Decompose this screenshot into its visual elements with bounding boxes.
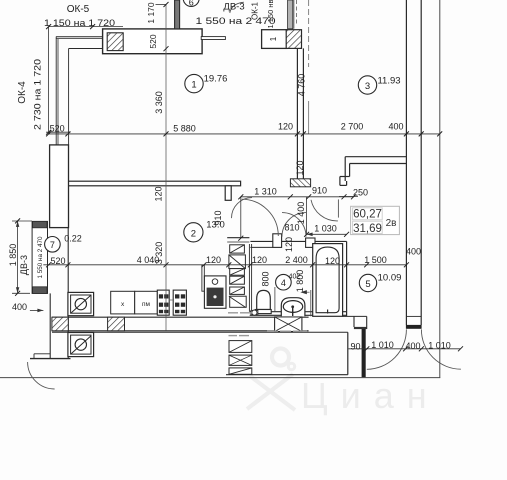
svg-text:3 320: 3 320 (154, 242, 164, 265)
svg-text:ДВ-3: ДВ-3 (223, 2, 244, 13)
toilet (257, 290, 271, 309)
wall: top exterior left segment (56, 37, 103, 145)
svg-text:5: 5 (365, 279, 370, 290)
svg-text:2 400: 2 400 (285, 255, 308, 265)
door arc room2 (242, 199, 279, 236)
wall stub above pier (288, 0, 293, 29)
stamp box (351, 206, 400, 234)
dim 400 left (30, 309, 44, 311)
svg-text:1 550 на 2 470: 1 550 на 2 470 (37, 236, 44, 278)
svg-text:250: 250 (353, 188, 368, 198)
wall: bath/room5 divider (346, 241, 348, 316)
washbasin (281, 298, 305, 317)
entry hall outline (52, 331, 348, 333)
svg-text:120: 120 (295, 160, 305, 175)
svg-text:400: 400 (12, 302, 27, 312)
svg-text:Циан: Циан (301, 375, 440, 416)
door DV-3 left balcony (32, 221, 47, 293)
svg-text:1: 1 (191, 80, 196, 91)
door arc corridor-left cross (232, 198, 253, 219)
wall: kitchen bottom band (52, 316, 309, 318)
hatched pier kitchen-mid (108, 317, 125, 331)
door arc entry left (367, 329, 407, 369)
svg-text:120: 120 (284, 237, 294, 252)
svg-text:2в: 2в (386, 218, 397, 229)
svg-text:1 150 нв: 1 150 нв (266, 0, 275, 28)
partition above top wall (175, 0, 180, 29)
vent shaft squares (229, 245, 246, 308)
svg-text:ОК-5: ОК-5 (67, 4, 90, 15)
svg-text:400: 400 (388, 122, 403, 132)
door arc bathroom (282, 213, 306, 237)
svg-text:3: 3 (365, 81, 370, 92)
svg-text:2: 2 (191, 228, 196, 239)
wall: bathroom bottom (250, 311, 347, 313)
room circle 4 (276, 274, 292, 290)
wire: section line bottom (0, 377, 440, 379)
svg-text:2 700: 2 700 (341, 122, 364, 132)
svg-text:120: 120 (278, 122, 293, 132)
svg-text:1 150 на 1 720: 1 150 на 1 720 (44, 18, 115, 29)
stove unit 2 (173, 290, 186, 315)
svg-text:800: 800 (261, 271, 271, 286)
room circle 7 (45, 237, 61, 253)
wall footing bottom left (34, 353, 50, 355)
svg-text:7: 7 (50, 240, 55, 250)
window OK-5 (103, 29, 203, 54)
door arc room5 (311, 200, 338, 221)
wall: left exterior column (67, 186, 69, 359)
svg-text:4: 4 (281, 278, 286, 288)
kitchen partition (202, 265, 204, 291)
dim vertical 910 corridor (240, 197, 242, 238)
svg-text:520: 520 (50, 124, 65, 134)
vent block below bathroom (275, 317, 302, 332)
dim 1850 line (17, 221, 19, 293)
svg-text:400: 400 (406, 247, 421, 257)
svg-text:1 500: 1 500 (364, 255, 387, 265)
door jamb bathroom left (273, 234, 282, 248)
svg-text:19.76: 19.76 (204, 74, 228, 85)
wall 90mm black (362, 329, 366, 377)
dim extension 4760 (308, 0, 310, 67)
svg-text:1 310: 1 310 (254, 187, 277, 197)
svg-text:520: 520 (50, 256, 65, 266)
svg-text:810: 810 (284, 223, 299, 233)
hatch rect entry 1 (229, 341, 252, 353)
window OK-4 (50, 145, 69, 228)
svg-text:4 760: 4 760 (296, 74, 306, 97)
floor drain (251, 310, 258, 314)
svg-text:1 170: 1 170 (146, 2, 156, 24)
svg-text:пм: пм (142, 301, 151, 308)
wall: bathroom left (248, 244, 250, 312)
watermark logo (stick figure) (247, 349, 295, 411)
svg-text:1 030: 1 030 (314, 224, 337, 234)
dim line top-left (49, 26, 123, 28)
room circle 3 (358, 76, 376, 94)
svg-text:520: 520 (148, 34, 158, 48)
dim extension 3360 (165, 4, 167, 331)
svg-text:2 730 на 1 720: 2 730 на 1 720 (32, 59, 43, 130)
hatched pier kitchen-left (52, 317, 68, 331)
hatch rect entry 2 (229, 355, 252, 365)
svg-text:ОК-4: ОК-4 (17, 81, 28, 104)
svg-text:ДВ-3: ДВ-3 (19, 255, 29, 275)
hatched wall end (290, 179, 310, 187)
wall: rooms 1/3 divider (296, 48, 298, 178)
dim chain horizontal y134 (49, 133, 440, 135)
partition toilet/basin ext (274, 287, 276, 312)
door jamb room2 (225, 186, 231, 201)
door arc balcony bottom-left (28, 362, 55, 389)
kitchen sink (204, 276, 226, 308)
hatched pier top (286, 30, 301, 49)
svg-text:120: 120 (325, 256, 340, 266)
tiny notes gray (228, 313, 307, 336)
svg-text:400: 400 (405, 341, 420, 351)
kitchen box dishwasher (135, 291, 158, 314)
svg-text:120: 120 (252, 255, 267, 265)
wall: room1/room2 divider (68, 181, 241, 186)
dim 250 leader (339, 196, 358, 198)
door arc bathroom cross (282, 213, 306, 237)
door jamb bathroom right (306, 238, 315, 247)
node circle 6 (183, 0, 199, 8)
vent shaft top cap (227, 237, 249, 239)
dim line 520 left (46, 131, 71, 133)
kitchen box fridge (111, 291, 135, 314)
wall: corridor/bathroom top (250, 240, 346, 242)
svg-text:402: 402 (289, 274, 301, 281)
svg-text:31,69: 31,69 (353, 223, 382, 235)
room circle 2 (184, 223, 203, 242)
door threshold DV-3 top (201, 37, 225, 40)
svg-text:1 010: 1 010 (371, 340, 394, 350)
wall cap dark (354, 327, 367, 329)
radiator square 2 (68, 333, 94, 357)
svg-text:1 010: 1 010 (428, 341, 451, 351)
svg-text:1 850: 1 850 (8, 244, 18, 267)
svg-text:1: 1 (269, 36, 278, 41)
svg-text:120: 120 (206, 255, 221, 265)
dim chain kitchen y265 (43, 264, 406, 266)
svg-text:60,27: 60,27 (353, 209, 382, 221)
svg-text:10.09: 10.09 (378, 273, 402, 284)
svg-text:11.93: 11.93 (377, 76, 400, 87)
wall cap black right (406, 325, 422, 329)
lintel box 1 (262, 30, 287, 49)
door arc entry right (421, 329, 461, 369)
wire: facade line right (439, 0, 441, 378)
wall: right exterior (405, 0, 407, 325)
centerline dash-dot (296, 0, 298, 26)
svg-text:1 400: 1 400 (296, 202, 306, 225)
radiator square 1 (68, 292, 94, 315)
wall: corridor top (room3 bottom) (340, 157, 407, 186)
stove unit 1 (157, 290, 169, 315)
svg-text:ОК-1: ОК-1 (251, 1, 260, 20)
bath tub (313, 244, 343, 317)
svg-text:90: 90 (350, 342, 360, 352)
svg-text:910: 910 (312, 186, 327, 196)
dim vertical 1400 (306, 197, 308, 235)
svg-text:1 550 на 2 470: 1 550 на 2 470 (196, 16, 276, 27)
dim entry y349 (349, 348, 461, 350)
leader to DV-3 label (230, 2, 244, 13)
svg-text:5 880: 5 880 (173, 124, 196, 134)
svg-text:6: 6 (189, 0, 194, 8)
room circle 1 (185, 74, 203, 92)
room circle 5 (359, 274, 376, 291)
hatch rect entry 3 (229, 368, 252, 374)
svg-text:3 360: 3 360 (154, 91, 164, 114)
svg-text:0.22: 0.22 (64, 234, 82, 244)
svg-text:910: 910 (213, 210, 223, 225)
svg-text:120: 120 (154, 186, 164, 201)
dim 1030 (307, 233, 347, 235)
dim corridor y197 (241, 196, 354, 198)
dim ticks (15, 2, 463, 351)
